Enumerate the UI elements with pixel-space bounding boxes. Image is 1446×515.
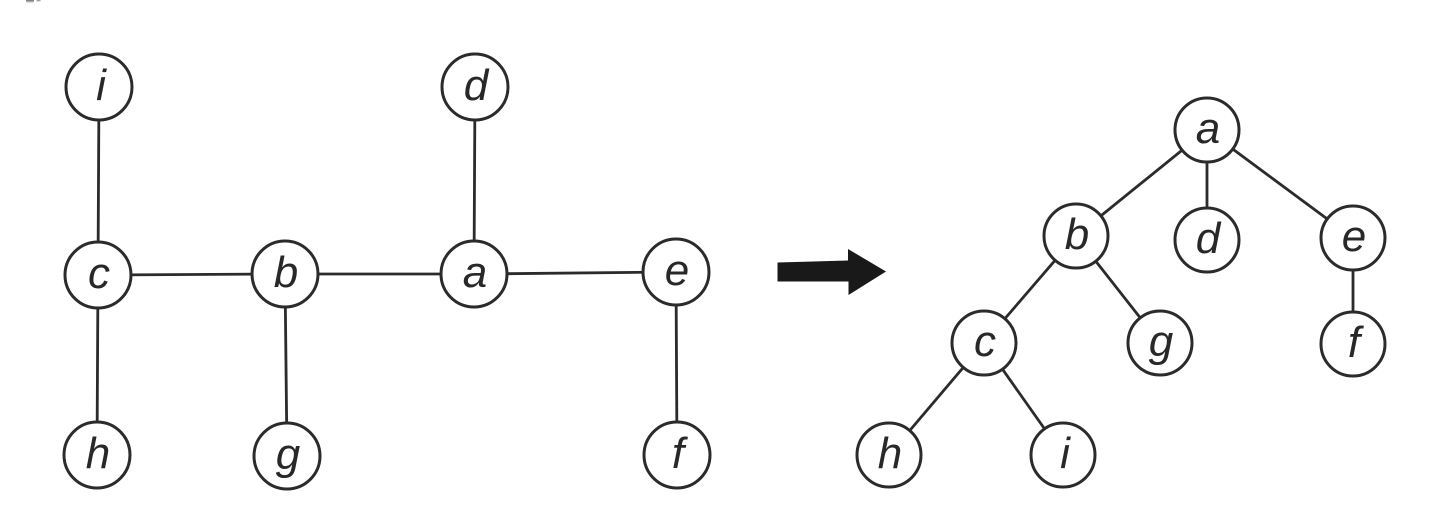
node i (tree) — [1031, 423, 1095, 487]
node c (graph) — [65, 242, 131, 308]
wire b-g — [285, 274, 287, 456]
wire a-d (tree) — [1206, 130, 1209, 240]
wire a-e — [474, 272, 676, 274]
svg-text:d: d — [464, 61, 490, 110]
wire d-a — [474, 86, 475, 274]
svg-text:i: i — [96, 61, 107, 110]
wire a-e (tree) — [1207, 130, 1353, 238]
scan artifact top-left — [26, 0, 34, 2]
node i (graph) — [66, 54, 132, 120]
node c (tree) — [952, 311, 1016, 375]
wire c-h (tree) — [889, 343, 984, 455]
svg-text:b: b — [274, 248, 298, 297]
svg-text:g: g — [276, 430, 301, 479]
svg-text:b: b — [1065, 210, 1089, 259]
svg-text:i: i — [1060, 429, 1071, 478]
node e (graph) — [643, 239, 709, 305]
node g (tree) — [1128, 311, 1192, 375]
wire e-f (tree) — [1352, 238, 1355, 344]
node a (graph) — [441, 241, 507, 307]
wire c-b — [98, 274, 285, 275]
wire i-c — [98, 87, 99, 275]
wire b-a — [285, 273, 474, 276]
svg-text:a: a — [1196, 104, 1220, 153]
svg-text:c: c — [974, 317, 996, 366]
wire b-g (tree) — [1076, 236, 1160, 343]
svg-text:a: a — [463, 248, 487, 297]
node a (tree) — [1175, 98, 1239, 162]
svg-text:e: e — [665, 246, 689, 295]
node d (tree) — [1175, 208, 1239, 272]
wire a-b (tree) — [1076, 130, 1207, 236]
svg-text:e: e — [1342, 212, 1366, 261]
node b (tree) — [1044, 204, 1108, 268]
svg-text:h: h — [878, 429, 902, 478]
node h (graph) — [64, 422, 130, 488]
svg-text:c: c — [88, 249, 110, 298]
node e (tree) — [1321, 206, 1385, 270]
node d (graph) — [442, 54, 508, 120]
node g (graph) — [254, 423, 320, 489]
wire c-i (tree) — [984, 343, 1063, 455]
wire e-f — [676, 272, 677, 455]
svg-text:h: h — [86, 429, 110, 478]
svg-text:d: d — [1196, 214, 1222, 263]
node f (graph) — [644, 422, 710, 488]
arrow — [778, 249, 887, 295]
svg-text:g: g — [1149, 317, 1174, 366]
node h (tree) — [857, 423, 921, 487]
wire b-c (tree) — [984, 236, 1076, 343]
node f (tree) — [1321, 312, 1385, 376]
node b (graph) — [252, 241, 318, 307]
wire c-h — [97, 275, 98, 455]
